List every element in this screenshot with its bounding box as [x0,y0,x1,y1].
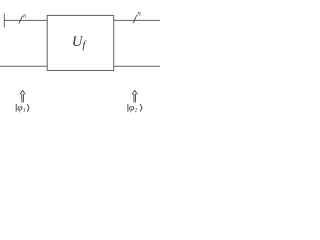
gate box U_f [47,15,114,70]
state pointer arrow left [20,91,26,103]
svg-text:2: 2 [134,107,137,113]
gate label U_f [72,34,88,51]
state label ket phi2 [128,102,142,113]
input terminal bar [3,14,5,28]
wire bottom-right [114,65,160,67]
bus slash left [19,16,23,24]
bus slash right [133,15,136,23]
wire top-left qubit bus [4,19,47,21]
svg-text:n: n [137,10,141,18]
wire bottom-left [0,65,47,67]
state label ket phi1 [16,102,29,113]
bus width label n (right) [137,10,141,18]
wire top-right qubit bus [114,19,160,21]
svg-text:n: n [23,13,26,20]
svg-text:1: 1 [23,107,26,113]
bus width label n (left) [23,13,26,20]
state pointer arrow right [132,91,138,103]
